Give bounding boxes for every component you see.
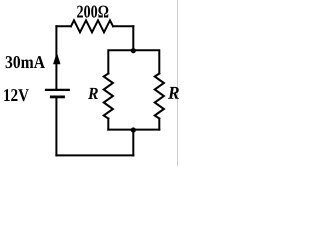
- label R (right resistor): [168, 87, 179, 99]
- wire: top bus of parallel branches (node A rail): [108, 50, 159, 73]
- wire: R1 bottom lead to bottom bus: [107, 119, 109, 130]
- junction dot node A: [131, 48, 136, 53]
- resistor R1 (left parallel) zigzag: [104, 74, 113, 119]
- value label 200-ohm: [77, 6, 108, 18]
- wire: feed from node B down to bottom wire: [132, 130, 134, 156]
- label R (left resistor): [88, 88, 98, 99]
- wire: top-left segment from left rail to 200-ohm resistor: [56, 25, 71, 27]
- source label 12V: [4, 89, 29, 101]
- battery V1 positive plate (long): [45, 89, 70, 91]
- wire: right rail from top wire down to node A: [132, 26, 134, 50]
- wire: left rail upper (top wire down to battery +): [55, 26, 57, 89]
- current label 30mA: [6, 56, 45, 68]
- wire: top-right segment from resistor to node A drop: [113, 25, 133, 27]
- wire: left rail lower (battery - down to bottom wire): [55, 97, 57, 155]
- resistor R2 (right parallel) zigzag: [155, 74, 164, 119]
- resistor R_top 200-ohm zigzag: [71, 20, 113, 32]
- wire: bottom return wire: [56, 154, 133, 156]
- wire: R2 bottom lead to bottom bus: [158, 119, 160, 130]
- junction dot node B: [131, 127, 136, 132]
- battery V1 negative plate (short): [50, 96, 65, 99]
- current arrow 30mA (pointing up on left rail): [53, 52, 60, 64]
- wire: bottom bus of parallel branches (node B rail): [108, 129, 159, 131]
